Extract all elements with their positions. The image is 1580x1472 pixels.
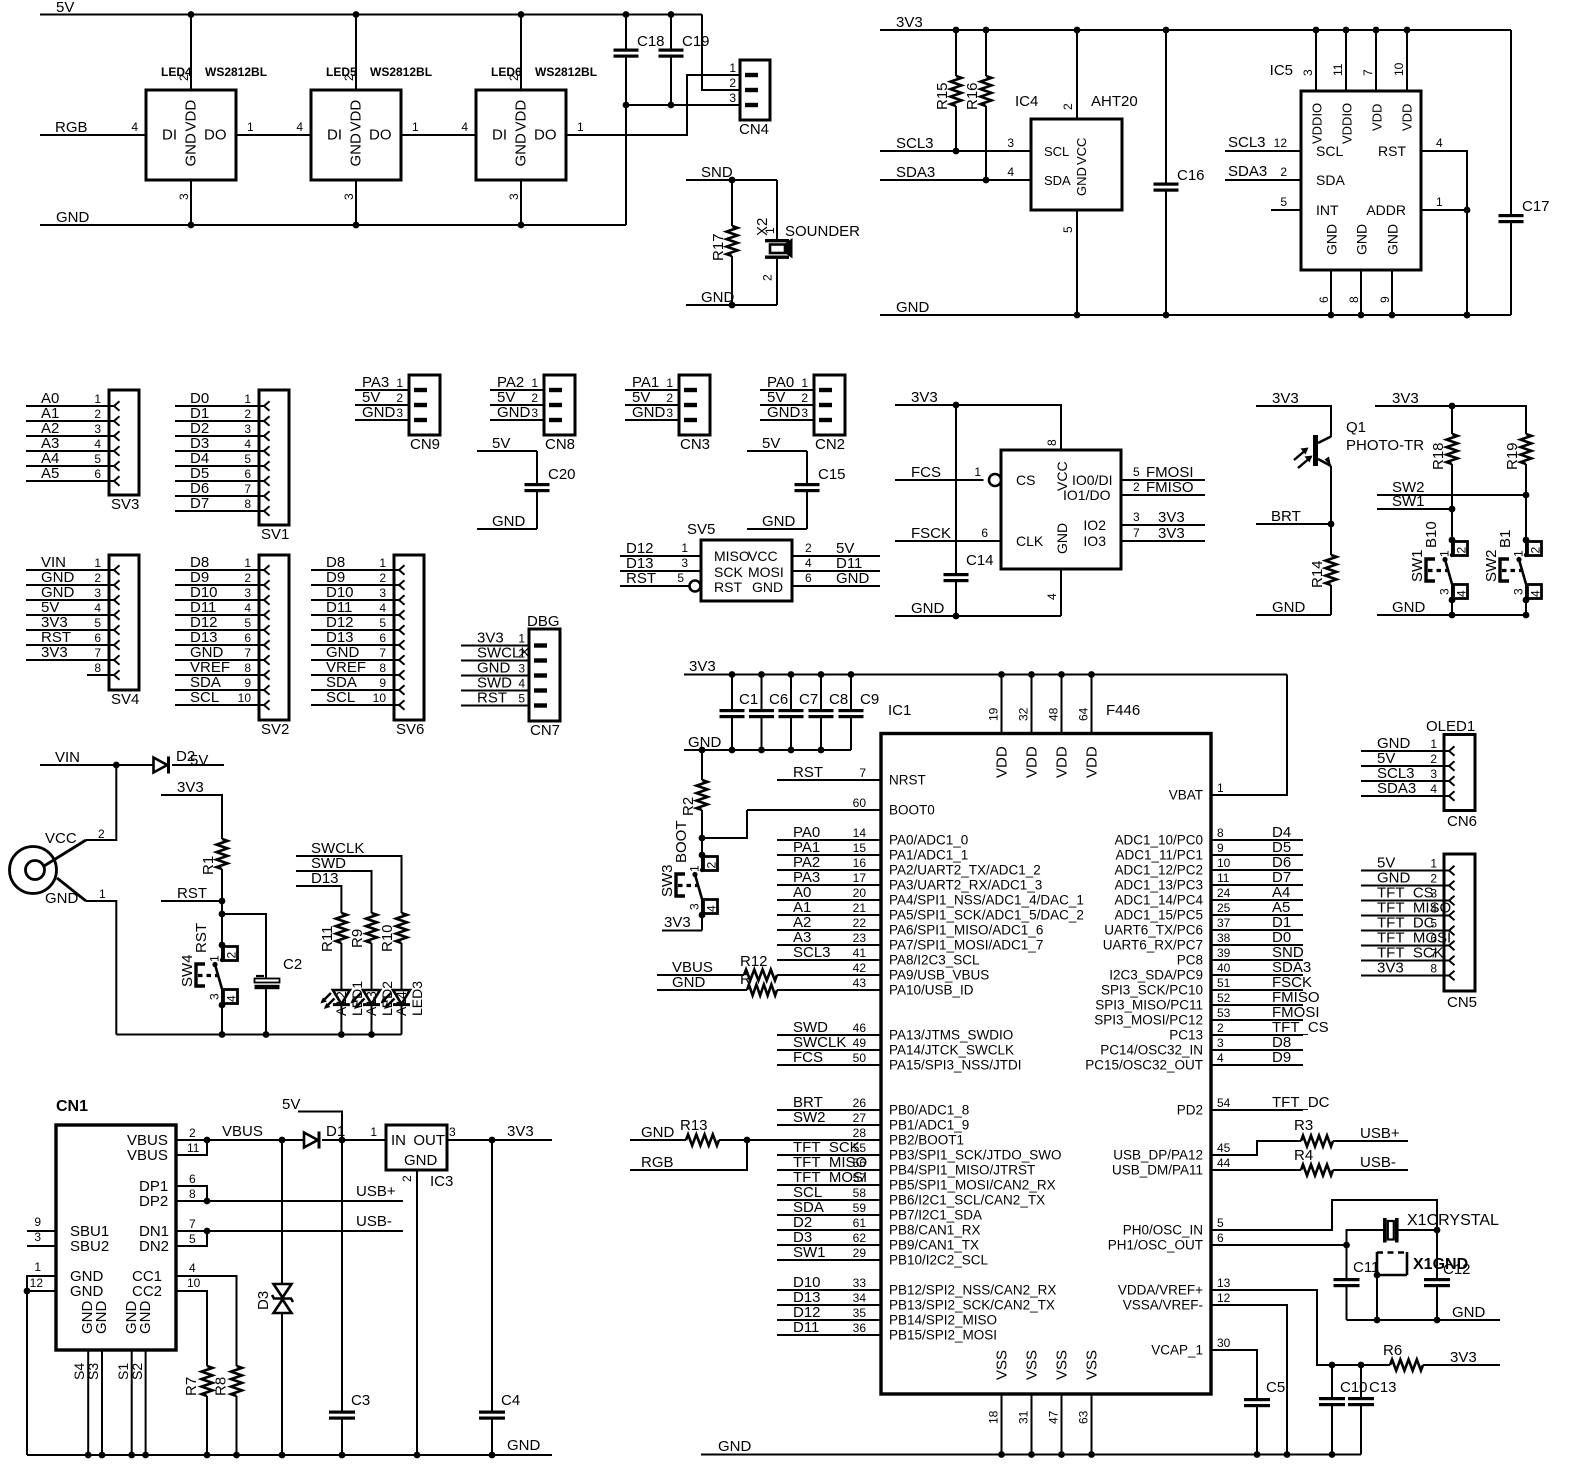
svg-text:39: 39 xyxy=(1217,946,1231,960)
net D1 to SV1 xyxy=(175,405,259,422)
resistor R11 xyxy=(319,913,347,990)
svg-text:CLK: CLK xyxy=(1016,533,1044,549)
svg-text:VDDA/VREF+: VDDA/VREF+ xyxy=(1118,1283,1203,1298)
svg-text:VBAT: VBAT xyxy=(1169,788,1203,803)
net SCL to SV2 xyxy=(175,689,259,706)
connector CN8 xyxy=(531,375,575,453)
svg-text:CN8: CN8 xyxy=(545,436,575,453)
svg-text:GND: GND xyxy=(641,1124,675,1141)
svg-text:6: 6 xyxy=(94,631,101,645)
wire CN1 DN pins 7/5 to USB- xyxy=(176,1213,403,1246)
net 5V to CN3 xyxy=(625,389,679,406)
svg-text:R1: R1 xyxy=(200,856,217,875)
capacitor C11 xyxy=(1334,1245,1380,1320)
svg-text:1: 1 xyxy=(208,955,222,962)
svg-text:RST: RST xyxy=(714,579,742,595)
MCU pin 22 PA6/SPI1_MISO/ADC1_6 xyxy=(777,914,1043,938)
svg-text:7: 7 xyxy=(244,646,251,660)
svg-text:7: 7 xyxy=(379,646,386,660)
svg-text:1: 1 xyxy=(1438,550,1452,557)
svg-text:GND: GND xyxy=(70,1283,104,1300)
MCU pin 50 PA15/SPI3_NSS/JTDI xyxy=(777,1049,1022,1073)
svg-text:5: 5 xyxy=(677,571,684,585)
MCU pin 5 PH0/OSC_IN xyxy=(1123,1216,1224,1238)
DC jack VCC/GND xyxy=(10,765,117,1035)
svg-text:SW1: SW1 xyxy=(793,1244,826,1261)
svg-text:VBUS: VBUS xyxy=(127,1147,168,1164)
MCU pin 54 PD2 xyxy=(1177,1094,1330,1118)
svg-text:USB-: USB- xyxy=(356,1213,392,1230)
resistor R6 / net 3V3 xyxy=(1332,1342,1500,1371)
svg-text:PB8/CAN1_RX: PB8/CAN1_RX xyxy=(889,1223,981,1238)
net 3V3 from flash pin3 xyxy=(1121,509,1205,526)
svg-text:ADC1_11/PC1: ADC1_11/PC1 xyxy=(1115,848,1203,863)
svg-text:34: 34 xyxy=(853,1291,867,1305)
svg-text:CS: CS xyxy=(1016,472,1035,488)
svg-text:OUT: OUT xyxy=(413,1132,445,1149)
svg-text:4: 4 xyxy=(1430,782,1437,796)
svg-text:3: 3 xyxy=(1133,510,1140,524)
net GND to SV4 xyxy=(26,584,109,601)
svg-text:31: 31 xyxy=(1017,1410,1031,1424)
svg-text:PB2/BOOT1: PB2/BOOT1 xyxy=(889,1133,964,1148)
svg-text:3V3: 3V3 xyxy=(1158,525,1185,542)
svg-text:USB_DP/PA12: USB_DP/PA12 xyxy=(1113,1148,1203,1163)
svg-text:1: 1 xyxy=(1512,550,1526,557)
svg-text:2: 2 xyxy=(761,274,775,281)
svg-text:VSS: VSS xyxy=(1054,1350,1071,1380)
net 5V to CN5 pin 1 xyxy=(1361,855,1444,872)
svg-text:2: 2 xyxy=(531,391,538,405)
svg-text:VCAP_1: VCAP_1 xyxy=(1151,1343,1203,1358)
svg-text:MISO: MISO xyxy=(714,548,750,564)
net SWCLK to CN7 xyxy=(461,645,530,662)
svg-text:OLED1: OLED1 xyxy=(1426,718,1475,735)
net RGB to R13 node xyxy=(630,1140,747,1171)
svg-text:PA4/SPI1_NSS/ADC1_4/DAC_1: PA4/SPI1_NSS/ADC1_4/DAC_1 xyxy=(889,893,1084,908)
capacitor C13 xyxy=(1348,1362,1397,1455)
svg-text:7: 7 xyxy=(1361,69,1375,76)
svg-text:3: 3 xyxy=(342,193,356,200)
switch SW1 (B10) xyxy=(1409,521,1469,603)
svg-text:1: 1 xyxy=(1430,737,1437,751)
wire BOOT to SW3 xyxy=(701,838,703,855)
svg-text:C20: C20 xyxy=(548,466,576,483)
svg-text:2: 2 xyxy=(225,952,239,959)
svg-text:4: 4 xyxy=(1007,165,1014,179)
svg-text:3V3: 3V3 xyxy=(1272,390,1299,407)
MCU pin 1 VBAT xyxy=(1169,781,1224,803)
MCU pin 11 ADC1_13/PC3 xyxy=(1114,869,1303,893)
wire CC1 to R8 xyxy=(176,1276,237,1366)
connector CN6 (OLED1) xyxy=(1426,718,1477,830)
svg-text:54: 54 xyxy=(1217,1096,1231,1110)
net SCL3 to CN6 pin 3 xyxy=(1361,765,1444,782)
net GND rail (MCU bottom) xyxy=(701,1438,1361,1455)
svg-text:C13: C13 xyxy=(1369,1379,1397,1396)
svg-text:INT: INT xyxy=(1316,202,1339,218)
net D13 to SV2 xyxy=(175,629,259,646)
svg-text:2: 2 xyxy=(94,571,101,585)
svg-text:2: 2 xyxy=(1133,480,1140,494)
svg-text:CN6: CN6 xyxy=(1447,813,1477,830)
svg-text:4: 4 xyxy=(518,677,525,691)
svg-text:10: 10 xyxy=(187,1276,201,1290)
crystal ground shield X1GND xyxy=(1374,1252,1469,1320)
svg-text:3: 3 xyxy=(1007,136,1014,150)
MCU pin 14 PA0/ADC1_0 xyxy=(777,824,968,848)
svg-text:GND: GND xyxy=(183,133,200,167)
svg-text:3V3: 3V3 xyxy=(911,389,938,406)
MCU pin 58 PB6/I2C1_SCL/CAN2_TX xyxy=(777,1184,1045,1208)
svg-text:RGB: RGB xyxy=(55,119,88,136)
svg-text:GND: GND xyxy=(497,404,531,421)
svg-text:GND: GND xyxy=(507,1437,541,1454)
svg-text:3: 3 xyxy=(177,193,191,200)
MCU pin 61 PB8/CAN1_RX xyxy=(777,1214,981,1238)
svg-text:CN7: CN7 xyxy=(530,722,560,739)
net PA0 to CN2 xyxy=(760,374,814,391)
svg-text:A13: A13 xyxy=(363,991,379,1016)
svg-text:8: 8 xyxy=(189,1187,196,1201)
svg-text:ADC1_13/PC3: ADC1_13/PC3 xyxy=(1114,878,1203,893)
svg-text:SCL3: SCL3 xyxy=(1228,134,1266,151)
svg-text:PC15/OSC32_OUT: PC15/OSC32_OUT xyxy=(1085,1058,1203,1073)
net 5V rail xyxy=(40,0,702,18)
svg-text:14: 14 xyxy=(853,826,867,840)
svg-text:6: 6 xyxy=(1317,296,1331,303)
net D6 to SV1 xyxy=(175,480,259,497)
svg-text:GND: GND xyxy=(1324,224,1340,255)
svg-text:GND: GND xyxy=(752,579,783,595)
svg-text:FMISO: FMISO xyxy=(1146,479,1194,496)
net GND to SV2 xyxy=(175,644,259,661)
photo-transistor Q1 xyxy=(1294,419,1424,524)
MCU pin 20 PA4/SPI1_NSS/ADC1_4/DAC_1 xyxy=(777,884,1084,908)
MCU pin 7 NRST xyxy=(777,764,926,788)
wire CN1 DP pins 6/8 to USB+ xyxy=(176,1183,403,1204)
svg-text:5: 5 xyxy=(244,616,251,630)
svg-text:3: 3 xyxy=(507,193,521,200)
svg-text:5: 5 xyxy=(94,616,101,630)
svg-text:7: 7 xyxy=(859,766,866,780)
net 5V from SV5 pin2 xyxy=(792,540,880,557)
svg-text:18: 18 xyxy=(987,1410,1001,1424)
svg-text:GND: GND xyxy=(45,890,79,907)
svg-text:SW2: SW2 xyxy=(1483,549,1500,582)
MCU pin 30 VCAP_1 xyxy=(1151,1336,1230,1358)
svg-text:3V3: 3V3 xyxy=(41,644,68,661)
net SWD to CN7 xyxy=(461,675,529,692)
svg-text:3: 3 xyxy=(449,1125,456,1139)
svg-text:F446: F446 xyxy=(1106,702,1140,719)
svg-text:PA15/SPI3_NSS/JTDI: PA15/SPI3_NSS/JTDI xyxy=(889,1058,1022,1073)
svg-text:C16: C16 xyxy=(1177,167,1205,184)
MCU pin 59 PB7/I2C1_SDA xyxy=(777,1199,982,1223)
svg-text:10: 10 xyxy=(373,691,387,705)
svg-text:4: 4 xyxy=(94,437,101,451)
svg-text:VDD: VDD xyxy=(1084,746,1101,778)
net GND to CN9 xyxy=(355,404,409,421)
svg-text:2: 2 xyxy=(1430,752,1437,766)
MCU pin 25 ADC1_15/PC5 xyxy=(1114,899,1303,923)
svg-text:27: 27 xyxy=(853,1111,867,1125)
svg-text:PB15/SPI2_MOSI: PB15/SPI2_MOSI xyxy=(889,1328,997,1343)
MCU pin 12 VSSA/VREF- xyxy=(1123,1291,1231,1313)
net 3V3 (flash) xyxy=(895,389,1061,450)
net SW2 wire xyxy=(1377,479,1529,498)
svg-text:CN4: CN4 xyxy=(739,121,769,138)
svg-text:8: 8 xyxy=(244,661,251,675)
svg-text:26: 26 xyxy=(853,1096,867,1110)
svg-text:1: 1 xyxy=(577,120,584,134)
svg-text:IO1/DO: IO1/DO xyxy=(1063,487,1111,503)
svg-text:3: 3 xyxy=(94,586,101,600)
capacitor C12 xyxy=(1424,1230,1471,1320)
svg-text:GND: GND xyxy=(1272,599,1306,616)
svg-text:GND: GND xyxy=(1074,167,1089,196)
svg-text:R3: R3 xyxy=(1294,1117,1313,1134)
wire IC5 RST/ADDR to GND xyxy=(1421,136,1470,318)
svg-text:SDA3: SDA3 xyxy=(896,164,935,181)
svg-text:R10: R10 xyxy=(379,924,396,952)
svg-text:PB7/I2C1_SDA: PB7/I2C1_SDA xyxy=(889,1208,982,1223)
svg-text:1: 1 xyxy=(729,61,736,75)
TVS diode D3 xyxy=(255,1140,293,1458)
svg-text:PH0/OSC_IN: PH0/OSC_IN xyxy=(1123,1223,1203,1238)
net PA1 to CN3 xyxy=(625,374,679,391)
net FMISO from flash pin2 xyxy=(1121,479,1205,496)
svg-text:5: 5 xyxy=(1430,917,1437,931)
svg-text:ADC1_12/PC2: ADC1_12/PC2 xyxy=(1114,863,1203,878)
switch SW3 (BOOT) xyxy=(659,820,719,918)
net 3V3 from flash pin7 xyxy=(1121,525,1205,542)
net A4 to SV3 xyxy=(26,450,109,467)
svg-text:4: 4 xyxy=(131,120,138,134)
net D11 from SV5 pin4 xyxy=(792,555,880,572)
svg-text:R13: R13 xyxy=(680,1117,708,1134)
svg-text:RST: RST xyxy=(793,764,823,781)
svg-text:21: 21 xyxy=(853,901,867,915)
WS2812B LED LED5 xyxy=(296,15,432,226)
svg-text:15: 15 xyxy=(853,841,867,855)
svg-text:GND: GND xyxy=(1385,224,1401,255)
svg-text:4: 4 xyxy=(1529,590,1543,597)
svg-text:7: 7 xyxy=(244,482,251,496)
wire SW1 column xyxy=(1451,509,1453,540)
svg-text:1: 1 xyxy=(247,120,254,134)
net 3V3 to SV4 xyxy=(26,644,109,661)
svg-text:2: 2 xyxy=(244,571,251,585)
net SDA3 to CN6 pin 4 xyxy=(1361,780,1444,797)
svg-text:12: 12 xyxy=(1274,136,1288,150)
SPI flash IC xyxy=(989,439,1121,616)
svg-text:PB3/SPI1_SCK/JTDO_SWO: PB3/SPI1_SCK/JTDO_SWO xyxy=(889,1148,1062,1163)
LED LED1 xyxy=(320,981,365,1038)
svg-text:43: 43 xyxy=(853,976,867,990)
svg-text:11: 11 xyxy=(1331,63,1345,76)
svg-text:30: 30 xyxy=(1217,1336,1231,1350)
svg-text:IO3: IO3 xyxy=(1083,533,1106,549)
svg-text:3: 3 xyxy=(1430,887,1437,901)
svg-text:PHOTO-TR: PHOTO-TR xyxy=(1346,437,1424,454)
capacitor C10 xyxy=(1319,1362,1368,1458)
MCU pin 26 PB0/ADC1_8 xyxy=(777,1094,969,1118)
net VIN to SV4 xyxy=(26,554,109,571)
svg-text:6: 6 xyxy=(1430,932,1437,946)
svg-text:3V3: 3V3 xyxy=(1450,1349,1477,1366)
svg-text:CN3: CN3 xyxy=(680,436,710,453)
svg-text:7: 7 xyxy=(94,646,101,660)
svg-text:53: 53 xyxy=(1217,1006,1231,1020)
wire SW4 to GND rail xyxy=(219,1005,226,1038)
net GND (flash) xyxy=(895,600,1061,619)
svg-text:64: 64 xyxy=(1077,707,1091,721)
svg-text:1: 1 xyxy=(1217,781,1224,795)
svg-text:X1GND: X1GND xyxy=(1413,1256,1468,1273)
svg-text:8: 8 xyxy=(1347,296,1361,303)
MCU pin 55 PB3/SPI1_SCK/JTDO_SWO xyxy=(777,1139,1062,1163)
svg-text:3V3: 3V3 xyxy=(177,779,204,796)
wire SW2 column xyxy=(1525,495,1527,540)
connector CN3 xyxy=(666,375,710,453)
net SCL3 (IC4) xyxy=(880,135,1031,154)
net SDA3 (IC4) xyxy=(880,164,1031,183)
net D12 to SV5 pin1 xyxy=(620,540,701,557)
svg-text:DP2: DP2 xyxy=(139,1193,168,1210)
svg-text:PA8/I2C3_SCL: PA8/I2C3_SCL xyxy=(889,953,980,968)
MCU pin 43 PA10/USB_ID xyxy=(853,976,974,998)
net D7 to SV1 xyxy=(175,495,259,512)
net D11 to SV2 xyxy=(175,599,259,616)
svg-text:C8: C8 xyxy=(829,691,848,708)
svg-text:PC8: PC8 xyxy=(1177,953,1203,968)
svg-text:45: 45 xyxy=(1217,1141,1231,1155)
MCU pin 38 UART6_RX/PC7 xyxy=(1103,929,1303,953)
svg-text:3V3: 3V3 xyxy=(507,1123,534,1140)
capacitor C1 xyxy=(720,675,759,751)
svg-text:R17: R17 xyxy=(710,233,727,261)
net VBUS wire xyxy=(207,1123,285,1143)
svg-text:3: 3 xyxy=(531,406,538,420)
svg-text:3: 3 xyxy=(244,422,251,436)
net D10 to SV6 xyxy=(311,584,394,601)
svg-text:6: 6 xyxy=(805,571,812,585)
svg-text:C15: C15 xyxy=(818,466,846,483)
svg-text:49: 49 xyxy=(853,1036,867,1050)
svg-text:8: 8 xyxy=(244,497,251,511)
net 5V to SV4 xyxy=(26,599,109,616)
svg-text:R15: R15 xyxy=(934,82,951,110)
svg-text:GND: GND xyxy=(1452,1304,1486,1321)
resistor R16 xyxy=(964,30,992,180)
svg-text:SCL: SCL xyxy=(190,689,219,706)
svg-text:PB10/I2C2_SCL: PB10/I2C2_SCL xyxy=(889,1253,989,1268)
MCU pin 8 ADC1_10/PC0 xyxy=(1114,824,1303,848)
wire VBAT to 3V3 xyxy=(1211,675,1287,796)
svg-text:59: 59 xyxy=(853,1201,867,1215)
svg-text:PA10/USB_ID: PA10/USB_ID xyxy=(889,983,974,998)
svg-text:SDA3: SDA3 xyxy=(1228,163,1267,180)
svg-text:3V3: 3V3 xyxy=(1158,509,1185,526)
svg-text:SV6: SV6 xyxy=(396,721,424,738)
svg-text:5: 5 xyxy=(518,692,525,706)
svg-text:LED3: LED3 xyxy=(409,981,425,1016)
svg-text:5: 5 xyxy=(1061,226,1075,233)
svg-text:C2: C2 xyxy=(283,956,302,973)
svg-text:IN: IN xyxy=(391,1132,406,1149)
svg-text:2: 2 xyxy=(1280,165,1287,179)
svg-text:DO: DO xyxy=(204,127,227,144)
connector SV6 xyxy=(373,555,425,738)
sounder X2 xyxy=(754,180,860,305)
svg-text:4: 4 xyxy=(189,1261,196,1275)
svg-text:VCC: VCC xyxy=(748,548,778,564)
svg-text:C3: C3 xyxy=(351,1392,370,1409)
svg-text:20: 20 xyxy=(853,886,867,900)
connector CN1 (USB) xyxy=(30,1098,201,1380)
MCU pin 49 PA14/JTCK_SWCLK xyxy=(777,1034,1014,1058)
net GND / resistor R13 to pin28 xyxy=(630,1117,881,1146)
svg-text:25: 25 xyxy=(1217,901,1231,915)
wire CN1 SBU pins xyxy=(27,1231,56,1246)
net GND to CN8 xyxy=(490,404,544,421)
svg-text:3: 3 xyxy=(208,993,222,1000)
svg-text:ADC1_14/PC4: ADC1_14/PC4 xyxy=(1114,893,1203,908)
MCU pin 2 PC13 xyxy=(1169,1019,1328,1043)
svg-text:R18: R18 xyxy=(1430,442,1447,470)
svg-text:SDA: SDA xyxy=(1316,172,1345,188)
svg-text:ADDR: ADDR xyxy=(1366,202,1406,218)
svg-text:PH1/OSC_OUT: PH1/OSC_OUT xyxy=(1108,1238,1203,1253)
svg-text:4: 4 xyxy=(296,120,303,134)
MCU pin 16 PA2/UART2_TX/ADC1_2 xyxy=(777,854,1041,878)
svg-text:4: 4 xyxy=(461,120,468,134)
resistor R1 xyxy=(200,839,228,901)
svg-text:2: 2 xyxy=(177,74,191,81)
svg-text:2: 2 xyxy=(244,407,251,421)
net TFT_SCK to CN5 pin 7 xyxy=(1361,945,1444,962)
svg-text:5V: 5V xyxy=(190,752,208,769)
svg-text:PA5/SPI1_SCK/ADC1_5/DAC_2: PA5/SPI1_SCK/ADC1_5/DAC_2 xyxy=(889,908,1084,923)
svg-text:37: 37 xyxy=(1217,916,1231,930)
WS2812B LED LED4 xyxy=(131,15,267,226)
MCU pin 9 ADC1_11/PC1 xyxy=(1115,839,1303,863)
svg-text:1: 1 xyxy=(801,376,808,390)
svg-text:NRST: NRST xyxy=(889,773,926,788)
svg-text:1: 1 xyxy=(94,392,101,406)
svg-text:2: 2 xyxy=(666,391,673,405)
net VREF to SV6 xyxy=(311,659,394,676)
wire SV4 pin 8 xyxy=(87,674,109,676)
svg-text:10: 10 xyxy=(238,691,252,705)
svg-text:USB+: USB+ xyxy=(356,1183,396,1200)
MCU pin 36 PB15/SPI2_MOSI xyxy=(777,1319,997,1343)
svg-text:7: 7 xyxy=(189,1217,196,1231)
net GND to CN7 xyxy=(461,660,529,677)
svg-text:VDDIO: VDDIO xyxy=(1310,103,1325,144)
net SWCLK (LED) xyxy=(296,840,402,913)
svg-text:1: 1 xyxy=(412,120,419,134)
net RST to SV4 xyxy=(26,629,109,646)
svg-text:GND: GND xyxy=(767,404,801,421)
svg-text:USB+: USB+ xyxy=(1360,1125,1400,1142)
svg-text:CC2: CC2 xyxy=(132,1283,162,1300)
net SND xyxy=(686,164,777,183)
wire IC5 INT pin 5 xyxy=(1271,195,1301,210)
svg-text:4: 4 xyxy=(705,905,719,912)
resistor below R12 (GND) xyxy=(657,971,881,996)
